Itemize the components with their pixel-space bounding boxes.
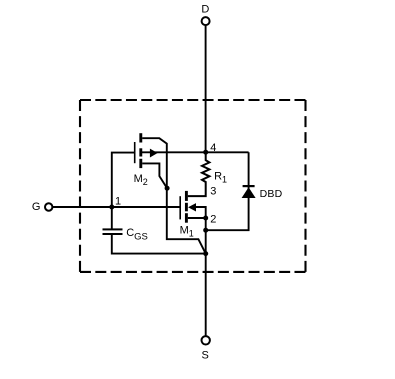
capacitor CGS bottom lead and source rail xyxy=(112,235,206,254)
junction dot source rail xyxy=(203,251,208,256)
wire: M2 source diagonal to junction xyxy=(142,163,167,188)
transistor M1 gate bar xyxy=(179,196,181,219)
svg-text:D: D xyxy=(201,3,209,15)
svg-text:S: S xyxy=(202,350,209,362)
svg-text:1: 1 xyxy=(115,195,121,207)
junction dot M2 source xyxy=(165,186,170,191)
capacitor CGS top plate xyxy=(103,228,123,230)
terminal D circle xyxy=(202,17,210,25)
wire: gate lead G to M1 gate xyxy=(53,206,181,208)
dashed boundary box xyxy=(80,100,306,272)
node 4 junction dot xyxy=(203,150,208,155)
resistor R1 xyxy=(188,152,210,196)
svg-text:G: G xyxy=(32,201,41,213)
junction dot diode return xyxy=(203,228,208,233)
terminal G circle xyxy=(45,203,52,210)
wire: drain lead from D to node 4 xyxy=(205,25,207,152)
diode DBD branch xyxy=(206,152,249,230)
capacitor CGS top lead xyxy=(111,207,113,229)
wire: M1 source xyxy=(188,217,206,219)
wire: M1 body to node 2 xyxy=(196,207,206,218)
wire: M2 drain bend down and bottom return to source rail xyxy=(142,138,206,253)
wire: node-4 horizontal rail (M2 body to diode branch) xyxy=(142,151,249,153)
diode DBD symbol triangle xyxy=(242,187,256,198)
M1 body arrow xyxy=(188,203,196,211)
svg-text:4: 4 xyxy=(210,142,216,154)
transistor M2 channel bars xyxy=(139,133,142,168)
node 2 junction dot xyxy=(203,216,208,221)
capacitor CGS bottom plate xyxy=(103,233,123,235)
svg-text:DBD: DBD xyxy=(260,188,283,200)
wire: source lead down to S terminal xyxy=(205,254,207,336)
M2 body arrow xyxy=(150,149,158,158)
wire: node 2 down to diode-return junction xyxy=(205,218,207,254)
terminal S circle xyxy=(202,336,210,344)
svg-text:2: 2 xyxy=(210,214,216,226)
wire: node 1 up to M2 gate xyxy=(112,153,134,207)
transistor M1 channel bars xyxy=(185,191,188,223)
diode DBD cathode bar xyxy=(243,185,255,187)
svg-text:3: 3 xyxy=(210,186,216,198)
transistor M2 gate bar xyxy=(134,142,136,163)
node 1 junction dot xyxy=(109,205,114,210)
